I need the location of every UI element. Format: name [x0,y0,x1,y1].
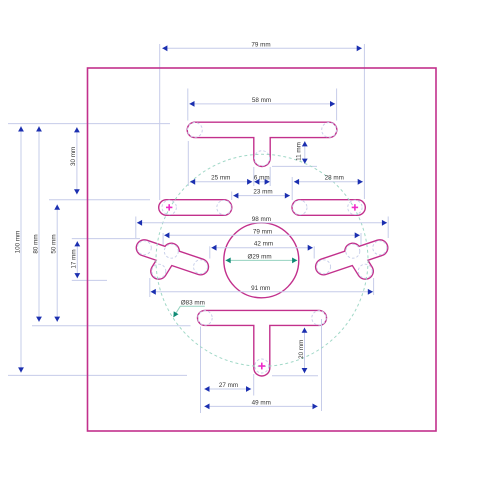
arrows 25 mm [190,179,195,185]
svg-text:58 mm: 58 mm [252,97,271,104]
left X slot [144,248,200,271]
dimension lines [21,48,387,406]
svg-text:23 mm: 23 mm [253,188,272,195]
arrows 20 mm [302,328,308,333]
arrows 27 mm [204,386,209,392]
ext stub 42 left [209,246,211,258]
dim 6 mm [254,181,270,183]
circle right X upper-right cap [373,241,387,255]
ext line left slot right edge [231,192,233,201]
arrows 50 mm [54,205,60,210]
dim 42 mm [211,247,313,249]
dim 49 mm [204,405,317,407]
arrows 30 mm [74,127,80,132]
cross mark bottom stem hole [258,363,265,370]
ext line right X outer edge [387,217,389,239]
ext line left slot top edge [49,199,150,201]
svg-text:25 mm: 25 mm [211,175,230,182]
svg-text:79 mm: 79 mm [251,41,270,48]
ext line bottom stem tip [8,374,187,376]
svg-text:Ø83 mm: Ø83 mm [181,299,205,306]
svg-text:50 mm: 50 mm [51,234,58,253]
dim 58 mm [189,103,335,105]
dim 98 mm [137,222,387,224]
ext line bottom bar bottom edge [32,325,191,327]
ext line left X top [72,238,140,240]
construction circles at slot ends [137,122,386,373]
ext line top bar left edge lower [187,141,189,186]
dim 80 mm [38,126,40,321]
right slot [300,199,358,216]
dim 28 mm [294,181,363,183]
circle bottom stem hole [255,359,269,373]
top T slot [195,130,329,158]
arrows 100 mm [18,126,24,131]
center hole circle Ø29 [224,223,299,298]
svg-text:Ø29 mm: Ø29 mm [248,254,272,261]
arrows 6 mm [254,179,259,185]
circle right slot left cap [293,200,307,214]
dashed pitch circle Ø83 [156,154,368,366]
dim Ø29 mm teal [226,258,298,264]
dim 11 mm [304,141,306,164]
extension lines [8,44,388,413]
svg-text:80 mm: 80 mm [32,234,39,253]
dim 91 mm [151,291,373,293]
arrows 91 mm [151,289,156,295]
dim 79 mm top [162,47,362,49]
outer square plate outline [88,68,437,431]
ext line top bar top edge [8,123,170,125]
circle left X upper-left cap [137,241,151,255]
arrows 98 mm [137,220,142,226]
svg-text:98 mm: 98 mm [252,216,271,223]
ext line top stem right edge [269,167,271,186]
arrows 80 mm [36,126,42,131]
arrows 11 mm [302,141,308,146]
ext stub 42 right [313,246,315,258]
circle top bar left cap [188,122,203,137]
ext line 79mid left [162,233,164,245]
svg-text:79 mm: 79 mm [253,228,272,235]
svg-text:27 mm: 27 mm [219,382,238,389]
ext line left X bottom cap outer [149,278,151,297]
circle right X bottom cap [358,264,372,278]
svg-text:17 mm: 17 mm [71,249,78,268]
dim 20 mm [304,328,306,374]
arrows 42 mm [211,245,216,251]
ext line top stem tip [272,165,317,167]
ext line right X bottom cap outer [373,278,375,295]
right X slot [324,248,380,271]
circle bottom bar left cap [198,311,212,325]
svg-text:49 mm: 49 mm [252,399,271,406]
leader Ø83 mm teal [173,306,204,317]
left slot [167,199,225,216]
cross mark left slot hole [166,204,172,210]
ext line 79mid right [360,233,362,245]
svg-text:100 mm: 100 mm [14,231,21,254]
ext line right slot outer edge [363,44,365,199]
dim 25 mm [190,181,252,183]
svg-text:28 mm: 28 mm [325,175,344,182]
ext line left X outer edge [135,217,137,239]
dimension arrowheads [18,45,387,409]
arrows 28 mm [294,179,299,185]
arrows 23 mm [233,193,238,199]
dim 100 mm [20,126,22,372]
ext line top stem left edge [253,167,255,186]
circle left X bottom cap [152,264,166,278]
dim 23 mm [233,195,290,197]
ext line right slot left edge [291,177,293,200]
ext line bottom stem tip right [272,375,318,377]
ext line bottom stem left edge [253,374,255,396]
dim 79 mm middle [164,234,360,236]
ext line top bar right edge upper [336,89,338,121]
circle top stem tip [254,151,269,166]
dim 17 mm [76,241,78,278]
dimension labels [14,41,344,406]
svg-text:11 mm: 11 mm [296,142,303,161]
bottom T slot [205,318,319,368]
svg-text:20 mm: 20 mm [298,340,305,359]
svg-text:42 mm: 42 mm [254,241,273,248]
ext line bottom bar right [321,319,323,411]
circle right X middle cap [346,244,360,258]
arrows 79 mm top [162,45,167,51]
ext line top bar left edge upper [187,89,189,121]
circle right X left cap [317,260,331,274]
svg-text:30 mm: 30 mm [70,147,77,166]
arrows 17 mm [74,241,80,246]
arrows 79 mm middle [164,232,169,238]
svg-text:6 mm: 6 mm [254,175,270,182]
dim 27 mm [204,388,251,390]
dim 30 mm [76,127,78,194]
circle left slot hole [162,200,176,214]
circle left X middle cap [164,244,178,258]
ext line bottom bar left [200,327,202,414]
arrows 58 mm [189,101,194,107]
ext line left slot outer edge [159,44,161,200]
ext line left X bottom [72,279,107,281]
cross mark right slot hole [352,204,358,210]
arrows 49 mm [204,404,209,410]
circle top bar right cap [322,122,337,137]
svg-text:91 mm: 91 mm [251,285,270,292]
circle left X right cap [194,260,208,274]
circle right slot hole [348,200,362,214]
circle left slot right cap [217,200,231,214]
circle bottom bar right cap [312,311,326,325]
dim 50 mm [56,205,58,322]
